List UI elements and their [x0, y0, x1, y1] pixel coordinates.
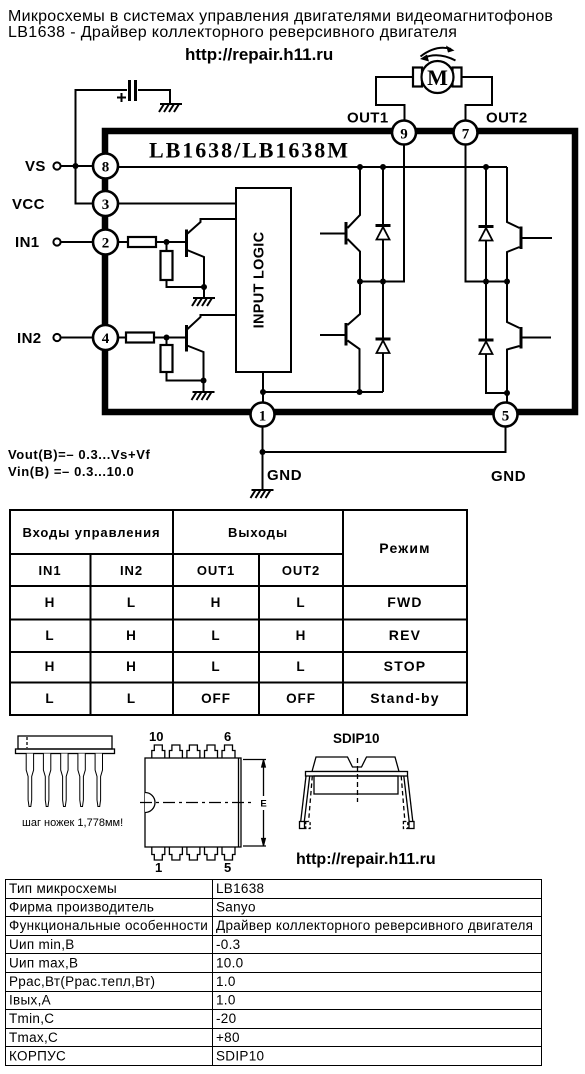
svg-text:IN1: IN1 [39, 563, 62, 578]
resistor R1 [128, 237, 156, 247]
truth table row STOP [45, 658, 427, 674]
package top view pins bottom [152, 847, 235, 860]
node OUT2-Q5 [504, 279, 510, 285]
wire logic to pin1 [262, 372, 264, 403]
op-amp block INPUT LOGIC [236, 188, 291, 372]
capacitor C1 plates [130, 80, 136, 101]
svg-text:8: 8 [102, 160, 110, 176]
package 3d legs right [401, 776, 414, 829]
dimension line E [243, 760, 266, 847]
svg-text:Выходы: Выходы [228, 525, 288, 540]
wire IN1 to pin2 [61, 241, 94, 243]
svg-text:http://repair.h11.ru: http://repair.h11.ru [185, 45, 333, 64]
wire pin7 down [466, 145, 508, 282]
wire pin4 to R3 [118, 337, 126, 339]
svg-text:L: L [211, 628, 220, 643]
transistor Q2 [187, 315, 237, 392]
truth table grid [10, 510, 467, 715]
pin 4 [93, 325, 118, 350]
spec row 2 [9, 900, 256, 915]
wire pin1 to gnd [262, 427, 264, 491]
wire OUT1 node row [360, 145, 404, 282]
transistor Q3 upper-left [320, 167, 360, 282]
svg-text:GND: GND [491, 468, 526, 485]
node gnd junction [260, 449, 266, 455]
spec row 5 [9, 955, 243, 970]
package top view body [140, 758, 252, 847]
wire VS to pin8 [61, 165, 94, 167]
svg-text:L: L [127, 691, 136, 706]
package 3d legs left [300, 776, 313, 829]
svg-text:H: H [45, 595, 56, 610]
node OUT1-Q3 [357, 279, 363, 285]
svg-text:-20: -20 [216, 1011, 236, 1026]
svg-text:Iвых,A: Iвых,A [9, 993, 51, 1008]
pin 7 [454, 121, 478, 145]
svg-text:Микросхемы в системах управлен: Микросхемы в системах управления двигате… [8, 8, 553, 25]
svg-text:Tmax,C: Tmax,C [9, 1030, 58, 1045]
spec row 4 [9, 937, 240, 952]
motor M1 brush right [453, 68, 462, 87]
svg-text:Тип микросхемы: Тип микросхемы [9, 881, 117, 896]
motor rotation arrow [420, 46, 456, 62]
svg-text:VS: VS [25, 158, 46, 175]
wire R2 to emitter rail [167, 280, 205, 287]
svg-text:1.0: 1.0 [216, 993, 236, 1008]
svg-text:OFF: OFF [201, 691, 231, 706]
capacitor C1 wire right [138, 90, 170, 103]
ground (capacitor) [159, 104, 182, 112]
diode D2 [376, 282, 391, 393]
svg-text:1.0: 1.0 [216, 974, 236, 989]
svg-text:OUT1: OUT1 [347, 110, 389, 127]
capacitor C1 wire left [76, 90, 128, 204]
svg-text:Режим: Режим [379, 540, 430, 556]
pin 3 [93, 191, 118, 216]
node OUT2-D3 [483, 279, 489, 285]
svg-text:H: H [211, 595, 222, 610]
svg-text:M: M [427, 65, 448, 90]
pin 5 [494, 403, 518, 427]
package 3d center line [357, 758, 359, 802]
svg-text:SDIP10: SDIP10 [333, 731, 380, 746]
spec row 7 [9, 993, 236, 1008]
truth table row FWD [45, 594, 423, 610]
svg-text:5: 5 [224, 860, 231, 875]
svg-text:H: H [126, 628, 137, 643]
node VS junction [73, 163, 79, 169]
node Q2 emitter [201, 378, 207, 384]
svg-text:7: 7 [462, 127, 470, 143]
svg-text:5: 5 [502, 409, 510, 425]
svg-text:IN2: IN2 [17, 330, 42, 347]
wire R4 to emitter rail [167, 372, 204, 381]
spec row 9 [9, 1030, 240, 1045]
package side view pins [26, 754, 102, 807]
svg-text:4: 4 [102, 331, 110, 347]
svg-text:OUT2: OUT2 [486, 110, 528, 127]
svg-text:10.0: 10.0 [216, 955, 243, 970]
motor M1 brush left [413, 68, 422, 87]
pin 8 [93, 154, 118, 179]
svg-text:L: L [45, 691, 54, 706]
svg-text:IN2: IN2 [120, 563, 143, 578]
wire lower-left emitter row [263, 391, 383, 393]
svg-text:10: 10 [149, 729, 163, 744]
ground (main) [251, 490, 274, 498]
svg-text:Stand-by: Stand-by [370, 690, 440, 706]
svg-text:1: 1 [155, 860, 162, 875]
svg-text:VCC: VCC [12, 196, 45, 213]
capacitor C1 plus sign [117, 93, 126, 102]
transistor Q5 upper-right [507, 167, 552, 282]
spec table grid [5, 879, 542, 1066]
VS terminal [53, 162, 60, 169]
node Q1 emitter [201, 284, 207, 290]
svg-text:H: H [45, 659, 56, 674]
svg-text:L: L [296, 659, 305, 674]
svg-text:Драйвер коллекторного реверсив: Драйвер коллекторного реверсивного двига… [216, 918, 533, 933]
diode D1 [376, 167, 391, 282]
svg-text:1: 1 [259, 409, 267, 425]
node logic-gnd [260, 389, 266, 395]
svg-text:OFF: OFF [286, 691, 316, 706]
node OUT1-D1 [380, 279, 386, 285]
node rail-D1 [380, 164, 386, 170]
truth table header [22, 525, 430, 578]
motor M1 wires [376, 77, 414, 121]
svg-text:LB1638 - Драйвер коллекторного: LB1638 - Драйвер коллекторного реверсивн… [8, 24, 457, 41]
transistor Q6 lower-right [507, 282, 551, 403]
svg-text:Sanyo: Sanyo [216, 900, 256, 915]
wire VCC pin3 to logic [118, 203, 236, 205]
svg-text:L: L [45, 628, 54, 643]
transistor Q4 lower-left [320, 282, 360, 393]
svg-text:REV: REV [389, 627, 421, 643]
svg-text:FWD: FWD [387, 594, 422, 610]
svg-text:OUT2: OUT2 [282, 563, 320, 578]
package 3d flange [306, 772, 408, 777]
svg-text:Uип max,B: Uип max,B [9, 955, 78, 970]
svg-text:Ррас,Вт(Ррас.тепл,Вт): Ррас,Вт(Ррас.тепл,Вт) [9, 974, 155, 989]
svg-text:Uип min,B: Uип min,B [9, 937, 75, 952]
resistor R3 [126, 333, 154, 343]
wire VS rail from pin8 [118, 166, 507, 168]
ground (Q2 emitter) [192, 392, 215, 400]
wire IN2 to pin4 [61, 337, 94, 339]
svg-text:Tmin,C: Tmin,C [9, 1011, 54, 1026]
svg-text:E: E [260, 799, 266, 810]
package side view body [16, 736, 115, 754]
node rail-Q3 [357, 164, 363, 170]
svg-text:LB1638: LB1638 [216, 881, 264, 896]
node IN1 divider [164, 239, 170, 245]
svg-text:LB1638/LB1638M: LB1638/LB1638M [149, 138, 348, 163]
truth table row Stand-by [45, 690, 439, 706]
svg-text:L: L [127, 595, 136, 610]
svg-text:9: 9 [400, 127, 408, 143]
node Q4 emitter row [357, 389, 363, 395]
svg-text:INPUT LOGIC: INPUT LOGIC [252, 231, 268, 328]
svg-text:КОРПУС: КОРПУС [9, 1048, 66, 1063]
IN1 terminal [53, 238, 60, 245]
IN2 terminal [53, 334, 60, 341]
svg-text:OUT1: OUT1 [197, 563, 235, 578]
spec row 1 [9, 881, 264, 896]
ground (Q1 emitter) [192, 298, 215, 306]
wire gnd row to pin5 [263, 427, 506, 453]
svg-text:H: H [296, 628, 307, 643]
node rail-D3 [483, 164, 489, 170]
node IN2 divider [164, 335, 170, 341]
svg-text:H: H [126, 659, 137, 674]
resistor R4 [161, 345, 173, 372]
spec row 6 [9, 974, 236, 989]
svg-text:IN1: IN1 [15, 234, 40, 251]
transistor Q1 [187, 219, 237, 298]
svg-text:Входы управления: Входы управления [22, 525, 160, 540]
spec row 3 [9, 918, 533, 933]
svg-text:GND: GND [267, 467, 302, 484]
package 3d front face [314, 776, 398, 794]
wire R3 to Q2 base [154, 337, 185, 339]
wire node to R2 [166, 242, 168, 251]
svg-text:SDIP10: SDIP10 [216, 1048, 264, 1063]
svg-text:3: 3 [102, 197, 110, 213]
svg-text:Функциональные особенности: Функциональные особенности [9, 918, 208, 933]
svg-text:-0.3: -0.3 [216, 937, 240, 952]
motor M1 body [422, 61, 454, 93]
svg-text:+80: +80 [216, 1030, 240, 1045]
svg-text:6: 6 [224, 729, 231, 744]
pin 2 [93, 230, 118, 255]
wire pin2 to R1 [118, 241, 128, 243]
svg-text:Фирма производитель: Фирма производитель [9, 900, 154, 915]
svg-text:Vout(B)=– 0.3...Vs+Vf: Vout(B)=– 0.3...Vs+Vf [8, 447, 150, 462]
svg-text:STOP: STOP [384, 658, 427, 674]
diode D3 [479, 167, 494, 282]
spec row 8 [9, 1011, 236, 1026]
pin 9 [392, 121, 416, 145]
pin 1 [251, 403, 275, 427]
svg-text:шаг ножек 1,778мм!: шаг ножек 1,778мм! [22, 817, 123, 829]
wire node to R4 [166, 338, 168, 346]
svg-text:2: 2 [102, 236, 110, 252]
svg-text:http://repair.h11.ru: http://repair.h11.ru [296, 851, 436, 868]
svg-text:L: L [296, 595, 305, 610]
IC body LB1638 [105, 131, 575, 412]
svg-text:L: L [211, 659, 220, 674]
spec row 10 [9, 1048, 264, 1063]
truth table row REV [45, 627, 421, 643]
package 3d top face [312, 757, 399, 772]
resistor R2 [161, 251, 173, 280]
package top view pins top [152, 745, 235, 758]
diode D4 [479, 282, 508, 394]
node Q6 emitter [504, 390, 510, 396]
wire R1 to Q1 base [156, 241, 185, 243]
svg-text:Vin(B) =– 0.3...10.0: Vin(B) =– 0.3...10.0 [8, 464, 134, 479]
